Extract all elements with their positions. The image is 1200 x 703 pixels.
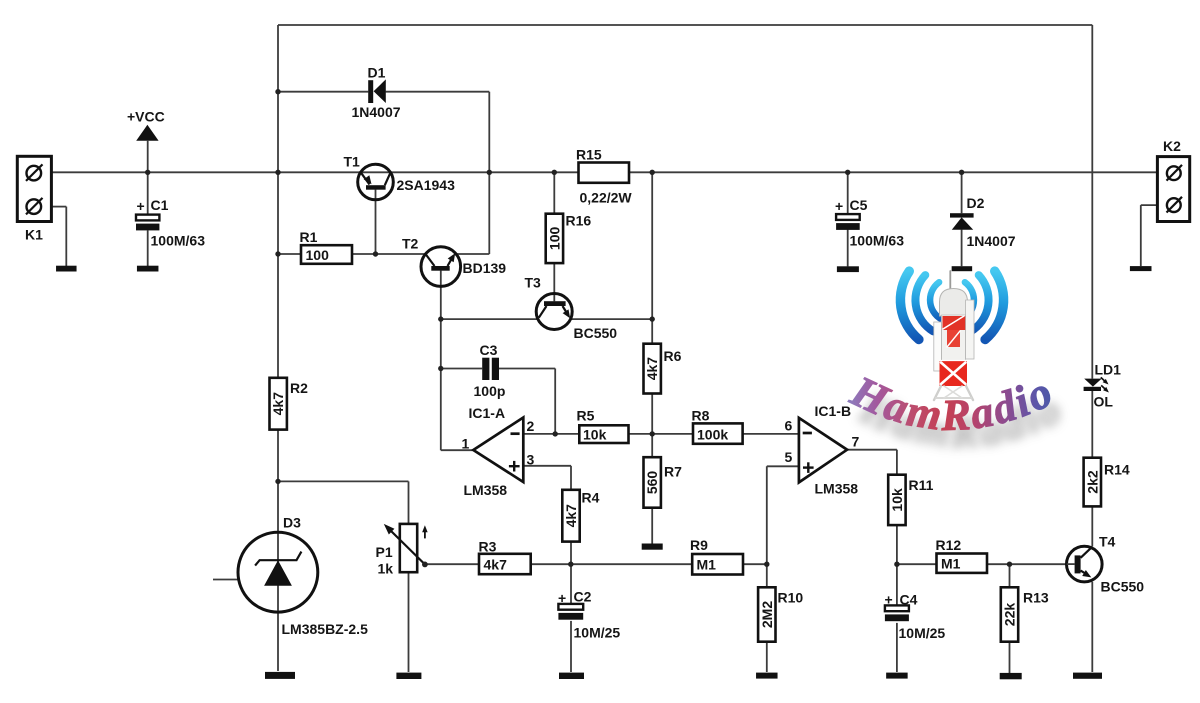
- svg-text:1N4007: 1N4007: [967, 233, 1016, 249]
- svg-text:T2: T2: [402, 236, 419, 252]
- svg-text:R7: R7: [664, 464, 682, 480]
- svg-text:R8: R8: [692, 408, 710, 424]
- svg-text:R6: R6: [664, 348, 682, 364]
- svg-text:10M/25: 10M/25: [574, 625, 621, 641]
- svg-text:BC550: BC550: [574, 325, 618, 341]
- svg-text:100M/63: 100M/63: [850, 233, 905, 249]
- svg-text:T1: T1: [344, 154, 361, 170]
- svg-text:R1: R1: [300, 229, 318, 245]
- svg-text:R11: R11: [909, 477, 934, 493]
- svg-text:+: +: [558, 590, 566, 606]
- svg-text:R15: R15: [576, 147, 602, 163]
- svg-text:C4: C4: [900, 592, 918, 608]
- svg-text:4k7: 4k7: [644, 357, 660, 381]
- svg-text:R3: R3: [479, 539, 497, 555]
- svg-text:2SA1943: 2SA1943: [397, 177, 456, 193]
- svg-text:100: 100: [306, 247, 330, 263]
- svg-text:C2: C2: [574, 589, 592, 605]
- svg-text:OL: OL: [1094, 394, 1114, 410]
- svg-text:IC1-A: IC1-A: [469, 405, 506, 421]
- svg-text:R16: R16: [566, 213, 592, 229]
- svg-text:5: 5: [785, 449, 793, 465]
- svg-text:C5: C5: [850, 197, 868, 213]
- svg-text:+: +: [885, 592, 893, 608]
- svg-text:R12: R12: [936, 537, 962, 553]
- svg-text:+: +: [137, 198, 145, 214]
- svg-text:4k7: 4k7: [484, 557, 508, 573]
- svg-text:2: 2: [527, 418, 535, 434]
- svg-text:R10: R10: [778, 590, 804, 606]
- svg-text:R13: R13: [1023, 590, 1049, 606]
- svg-text:M1: M1: [941, 556, 961, 572]
- svg-text:LM358: LM358: [464, 482, 508, 498]
- svg-text:R14: R14: [1104, 462, 1130, 478]
- svg-text:6: 6: [785, 418, 793, 434]
- svg-text:7: 7: [852, 434, 860, 450]
- svg-text:D3: D3: [283, 515, 301, 531]
- svg-text:4k7: 4k7: [563, 504, 579, 528]
- svg-text:1k: 1k: [378, 561, 394, 577]
- svg-text:IC1-B: IC1-B: [815, 403, 852, 419]
- svg-text:10k: 10k: [889, 488, 905, 512]
- svg-text:T4: T4: [1099, 534, 1116, 550]
- svg-text:10M/25: 10M/25: [899, 625, 946, 641]
- svg-text:D1: D1: [368, 65, 386, 81]
- svg-text:T3: T3: [525, 275, 542, 291]
- svg-text:100M/63: 100M/63: [151, 233, 206, 249]
- svg-text:K2: K2: [1163, 138, 1181, 154]
- svg-text:100p: 100p: [474, 383, 506, 399]
- svg-text:D2: D2: [967, 195, 985, 211]
- svg-text:R2: R2: [290, 380, 308, 396]
- svg-text:BD139: BD139: [463, 260, 507, 276]
- svg-text:1: 1: [462, 436, 470, 452]
- svg-text:M1: M1: [697, 557, 717, 573]
- svg-text:C1: C1: [151, 197, 169, 213]
- svg-text:C3: C3: [480, 342, 498, 358]
- svg-text:+VCC: +VCC: [127, 109, 165, 125]
- svg-text:BC550: BC550: [1101, 579, 1145, 595]
- svg-text:LM358: LM358: [815, 481, 859, 497]
- svg-text:2M2: 2M2: [759, 601, 775, 628]
- svg-text:K1: K1: [25, 227, 43, 243]
- svg-text:R9: R9: [690, 537, 708, 553]
- svg-text:R4: R4: [582, 490, 600, 506]
- svg-text:10k: 10k: [583, 427, 607, 443]
- svg-text:1N4007: 1N4007: [352, 104, 401, 120]
- svg-text:0,22/2W: 0,22/2W: [580, 190, 633, 206]
- svg-text:R5: R5: [577, 408, 595, 424]
- svg-text:560: 560: [644, 471, 660, 495]
- svg-text:P1: P1: [376, 544, 393, 560]
- svg-text:LM385BZ-2.5: LM385BZ-2.5: [282, 621, 369, 637]
- svg-text:2k2: 2k2: [1084, 470, 1100, 494]
- svg-text:4k7: 4k7: [270, 392, 286, 416]
- svg-text:+: +: [835, 198, 843, 214]
- svg-text:100: 100: [546, 227, 562, 251]
- svg-text:LD1: LD1: [1095, 362, 1122, 378]
- svg-text:100k: 100k: [697, 427, 728, 443]
- svg-text:22k: 22k: [1002, 603, 1018, 627]
- svg-text:3: 3: [527, 452, 535, 468]
